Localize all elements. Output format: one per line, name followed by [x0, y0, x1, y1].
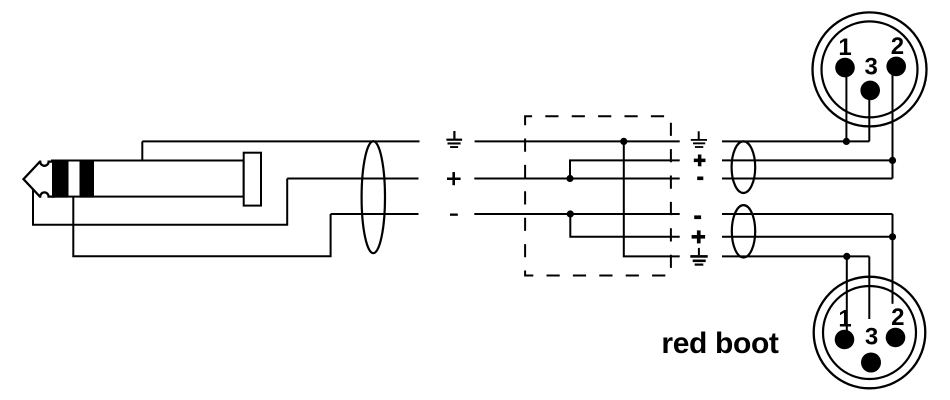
wire: plus stub to top XLR pin2 junction — [722, 159, 893, 161]
wire: top XLR pin1 riser — [845, 68, 847, 142]
svg-text:2: 2 — [891, 33, 904, 60]
junction: bottom XLR pin2 — [889, 233, 896, 240]
minus symbol left column — [450, 214, 458, 216]
X2 pin 3 — [861, 353, 881, 373]
cable ellipse at jack — [362, 141, 385, 253]
dashed junction box — [525, 116, 671, 275]
minus symbol right row4 — [694, 215, 701, 219]
wire: branch minus down inside box — [570, 214, 679, 237]
plus symbol left column — [447, 172, 461, 185]
jack plug J1 insulator band 2 — [80, 160, 95, 198]
minus symbol right row3 — [697, 177, 703, 181]
plus symbol right row5 — [692, 230, 706, 243]
ground symbol right row6 — [690, 248, 707, 266]
wire: top XLR pin3 riser — [868, 90, 870, 141]
svg-text:1: 1 — [838, 34, 851, 61]
cable ellipse top XLR — [732, 141, 756, 193]
junction: plus branch in box — [566, 175, 573, 182]
svg-text:red boot: red boot — [661, 327, 779, 360]
wire: top XLR pin2 riser — [892, 66, 894, 178]
wire: plus line to left plus symbol — [287, 178, 418, 180]
X1 pin 2 — [886, 57, 906, 77]
wire: jack sleeve riser to ground line — [141, 141, 143, 160]
X2 pin 1 — [835, 330, 855, 350]
junction: bottom XLR pin1 — [843, 253, 850, 260]
jack plug J1 body (sleeve) — [52, 161, 244, 197]
svg-text:3: 3 — [865, 53, 878, 80]
wire: jack tip drop and under-body run — [33, 179, 287, 225]
svg-text:3: 3 — [865, 324, 878, 351]
cable ellipse bottom XLR — [732, 205, 755, 257]
wire: minus line to left minus symbol — [331, 213, 419, 215]
junction: ground branch in box — [620, 138, 627, 145]
wire: plus stub to bottom XLR pin2 junction — [722, 236, 893, 238]
ground symbol right row1 — [691, 131, 707, 148]
plus symbol right row2 — [694, 155, 706, 167]
junction: minus branch in box — [567, 210, 574, 217]
wire: minus stub to top XLR pin2 riser — [722, 178, 893, 180]
X1 pin 1 — [835, 58, 855, 78]
junction: top XLR pin1 — [843, 138, 850, 145]
wire: ground line symbol to dashed box junction — [475, 140, 680, 142]
wire: ground line to top XLR pin3 corner — [722, 140, 869, 142]
junction: top XLR pin2 — [889, 157, 896, 164]
jack plug J1 insulator band 1 — [52, 160, 69, 198]
wire: bottom XLR pin1 drop — [846, 256, 848, 335]
ground symbol left column — [446, 131, 462, 148]
jack plug J1 tip contact — [24, 162, 54, 197]
wire: branch plus up inside box — [570, 160, 680, 178]
wire: minus line to bottom XLR pin2 riser — [722, 213, 893, 215]
wire: bottom XLR pin2 drop — [892, 214, 894, 304]
wire: bottom XLR pin3 drop — [868, 256, 870, 319]
XLR connector X2 inner ring — [823, 286, 916, 379]
jack plug J1 collar — [244, 153, 261, 206]
wire: minus line symbol through box — [474, 213, 679, 215]
XLR connector X1 inner ring — [822, 21, 918, 117]
svg-text:1: 1 — [838, 305, 851, 332]
wire: jack ring drop and under-body run — [73, 198, 330, 257]
X1 pin 3 — [860, 81, 880, 101]
XLR connector X2 (bottom) outer shell — [814, 277, 926, 389]
wire: ground line jack to left ground symbol — [142, 140, 419, 142]
XLR connector X1 (top) outer shell — [813, 12, 927, 126]
svg-text:2: 2 — [891, 304, 904, 331]
wire: plus line symbol through box — [474, 178, 679, 180]
wire: ground stub to bottom XLR pin3 corner — [722, 255, 869, 257]
X2 pin 2 — [886, 328, 906, 348]
wire: branch ground down inside box — [624, 141, 680, 256]
